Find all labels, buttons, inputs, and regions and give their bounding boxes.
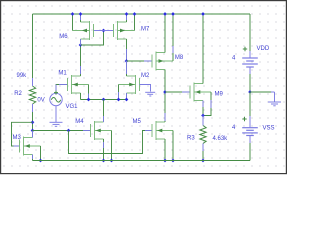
node VSS-M4b — [110, 159, 114, 163]
wire — [164, 113, 166, 121]
wire — [56, 85, 68, 93]
node tail-M2b — [117, 98, 121, 102]
svg-text:M7: M7 — [141, 27, 150, 33]
wire — [271, 91, 275, 93]
node VDD-M6s — [79, 12, 83, 16]
wire — [165, 91, 190, 93]
svg-text:VG1: VG1 — [66, 104, 79, 110]
wire — [111, 131, 113, 161]
wire — [80, 66, 82, 74]
ground — [268, 92, 281, 106]
wire — [72, 14, 74, 31]
ground — [145, 92, 155, 96]
node C — [163, 90, 167, 94]
wire — [59, 84, 68, 86]
node OUT — [201, 114, 205, 118]
wire — [145, 130, 152, 132]
wire — [202, 101, 204, 108]
wire — [249, 136, 251, 144]
wire — [172, 46, 174, 53]
svg-text:VSS: VSS — [263, 126, 275, 132]
wire — [103, 116, 105, 122]
node A — [79, 43, 83, 47]
wire — [32, 155, 34, 160]
node VDD-M6b — [71, 12, 75, 16]
wire — [249, 74, 251, 92]
wire — [81, 31, 104, 46]
node GNDmid — [248, 90, 252, 94]
svg-text:M5: M5 — [133, 119, 142, 125]
wire — [249, 14, 251, 51]
svg-text:R2: R2 — [14, 91, 22, 97]
wire — [80, 45, 82, 76]
wire — [32, 131, 34, 138]
ground — [50, 122, 63, 126]
node tail-M4d — [102, 98, 106, 102]
node B — [125, 59, 129, 63]
wire — [80, 14, 82, 20]
transistor M1 — [58, 71, 88, 95]
voltage source VG1 — [37, 91, 78, 110]
wire — [55, 106, 57, 122]
wire — [94, 30, 104, 32]
battery VSS — [232, 116, 275, 136]
wire — [126, 39, 128, 61]
wire — [126, 61, 128, 76]
node gates — [102, 29, 106, 33]
wire — [126, 93, 128, 100]
wire — [249, 68, 251, 75]
wire — [202, 14, 204, 84]
svg-text:VDD: VDD — [257, 46, 270, 52]
transistor M2 — [119, 73, 150, 94]
resistor R3 — [187, 116, 228, 152]
transistor M3 — [13, 135, 41, 156]
wire — [32, 112, 34, 131]
node VDD-M9d — [201, 12, 205, 16]
wire — [126, 93, 128, 100]
wire — [126, 49, 128, 61]
wire — [164, 70, 166, 123]
wire — [32, 131, 34, 138]
resistor R2 — [14, 73, 36, 112]
battery VDD — [232, 46, 270, 67]
node tail-M2s — [125, 98, 129, 102]
node VDD-M8b — [171, 12, 175, 16]
svg-text:M6: M6 — [59, 34, 68, 40]
wire — [203, 92, 211, 116]
wire — [88, 85, 90, 100]
svg-text:M8: M8 — [175, 55, 184, 61]
wire — [80, 14, 82, 22]
wire — [164, 14, 166, 53]
transistor M6 — [59, 21, 93, 40]
node VDD-M8s — [163, 12, 167, 16]
wire — [249, 143, 251, 161]
wire — [104, 30, 114, 32]
node bias3 — [67, 129, 71, 133]
wire — [14, 145, 20, 147]
wire — [164, 139, 166, 161]
node VSS-R3 — [201, 159, 205, 163]
wire — [103, 139, 105, 161]
wire — [103, 142, 105, 148]
svg-text:0V: 0V — [37, 97, 44, 103]
wire — [144, 60, 152, 62]
wire — [134, 14, 136, 31]
wire — [126, 61, 128, 74]
wire — [83, 130, 91, 132]
wire — [32, 14, 34, 78]
node VSS-M4s — [102, 159, 106, 163]
node bias1 — [31, 120, 35, 124]
wire — [202, 151, 204, 161]
wire — [33, 13, 251, 15]
node tail-M1b — [87, 98, 91, 102]
wire — [118, 92, 120, 100]
node VSS-M3b — [39, 159, 43, 163]
wire — [127, 60, 153, 62]
wire — [172, 14, 174, 61]
transistor M4 — [75, 119, 111, 140]
wire — [126, 14, 128, 20]
wire — [80, 93, 82, 100]
wire — [32, 155, 34, 161]
node VDD-M7s — [125, 12, 129, 16]
wire — [126, 14, 128, 22]
wire — [80, 39, 82, 45]
wire — [40, 146, 42, 161]
node VSS-M5b — [171, 159, 175, 163]
wire — [250, 91, 272, 93]
node bias2 — [31, 129, 35, 133]
wire — [33, 160, 251, 162]
svg-text:M3: M3 — [13, 135, 22, 141]
transistor M5 — [133, 119, 174, 140]
wire — [55, 85, 57, 93]
svg-text:M4: M4 — [75, 119, 84, 125]
wire — [80, 39, 82, 45]
transistor M8 — [152, 52, 184, 71]
wire — [81, 99, 127, 101]
svg-text:M1: M1 — [58, 71, 67, 77]
svg-text:M2: M2 — [141, 73, 150, 79]
transistor M9 — [190, 83, 223, 102]
wire — [182, 91, 190, 93]
wire — [69, 131, 153, 154]
wire — [202, 101, 204, 116]
wire — [33, 130, 91, 132]
node VSS-M5s — [163, 159, 167, 163]
transistor M7 — [114, 21, 150, 40]
svg-text:M9: M9 — [215, 92, 224, 98]
wire — [172, 131, 174, 161]
svg-text:R3: R3 — [187, 136, 195, 142]
wire — [210, 100, 212, 108]
svg-text:99k: 99k — [17, 73, 28, 79]
wire — [118, 85, 120, 100]
wire — [12, 122, 33, 146]
wire — [103, 100, 105, 123]
wire — [249, 92, 251, 116]
node VDD-M7b — [133, 12, 137, 16]
svg-text:4.63k: 4.63k — [213, 136, 229, 142]
wire — [88, 94, 90, 100]
wire — [140, 85, 151, 92]
